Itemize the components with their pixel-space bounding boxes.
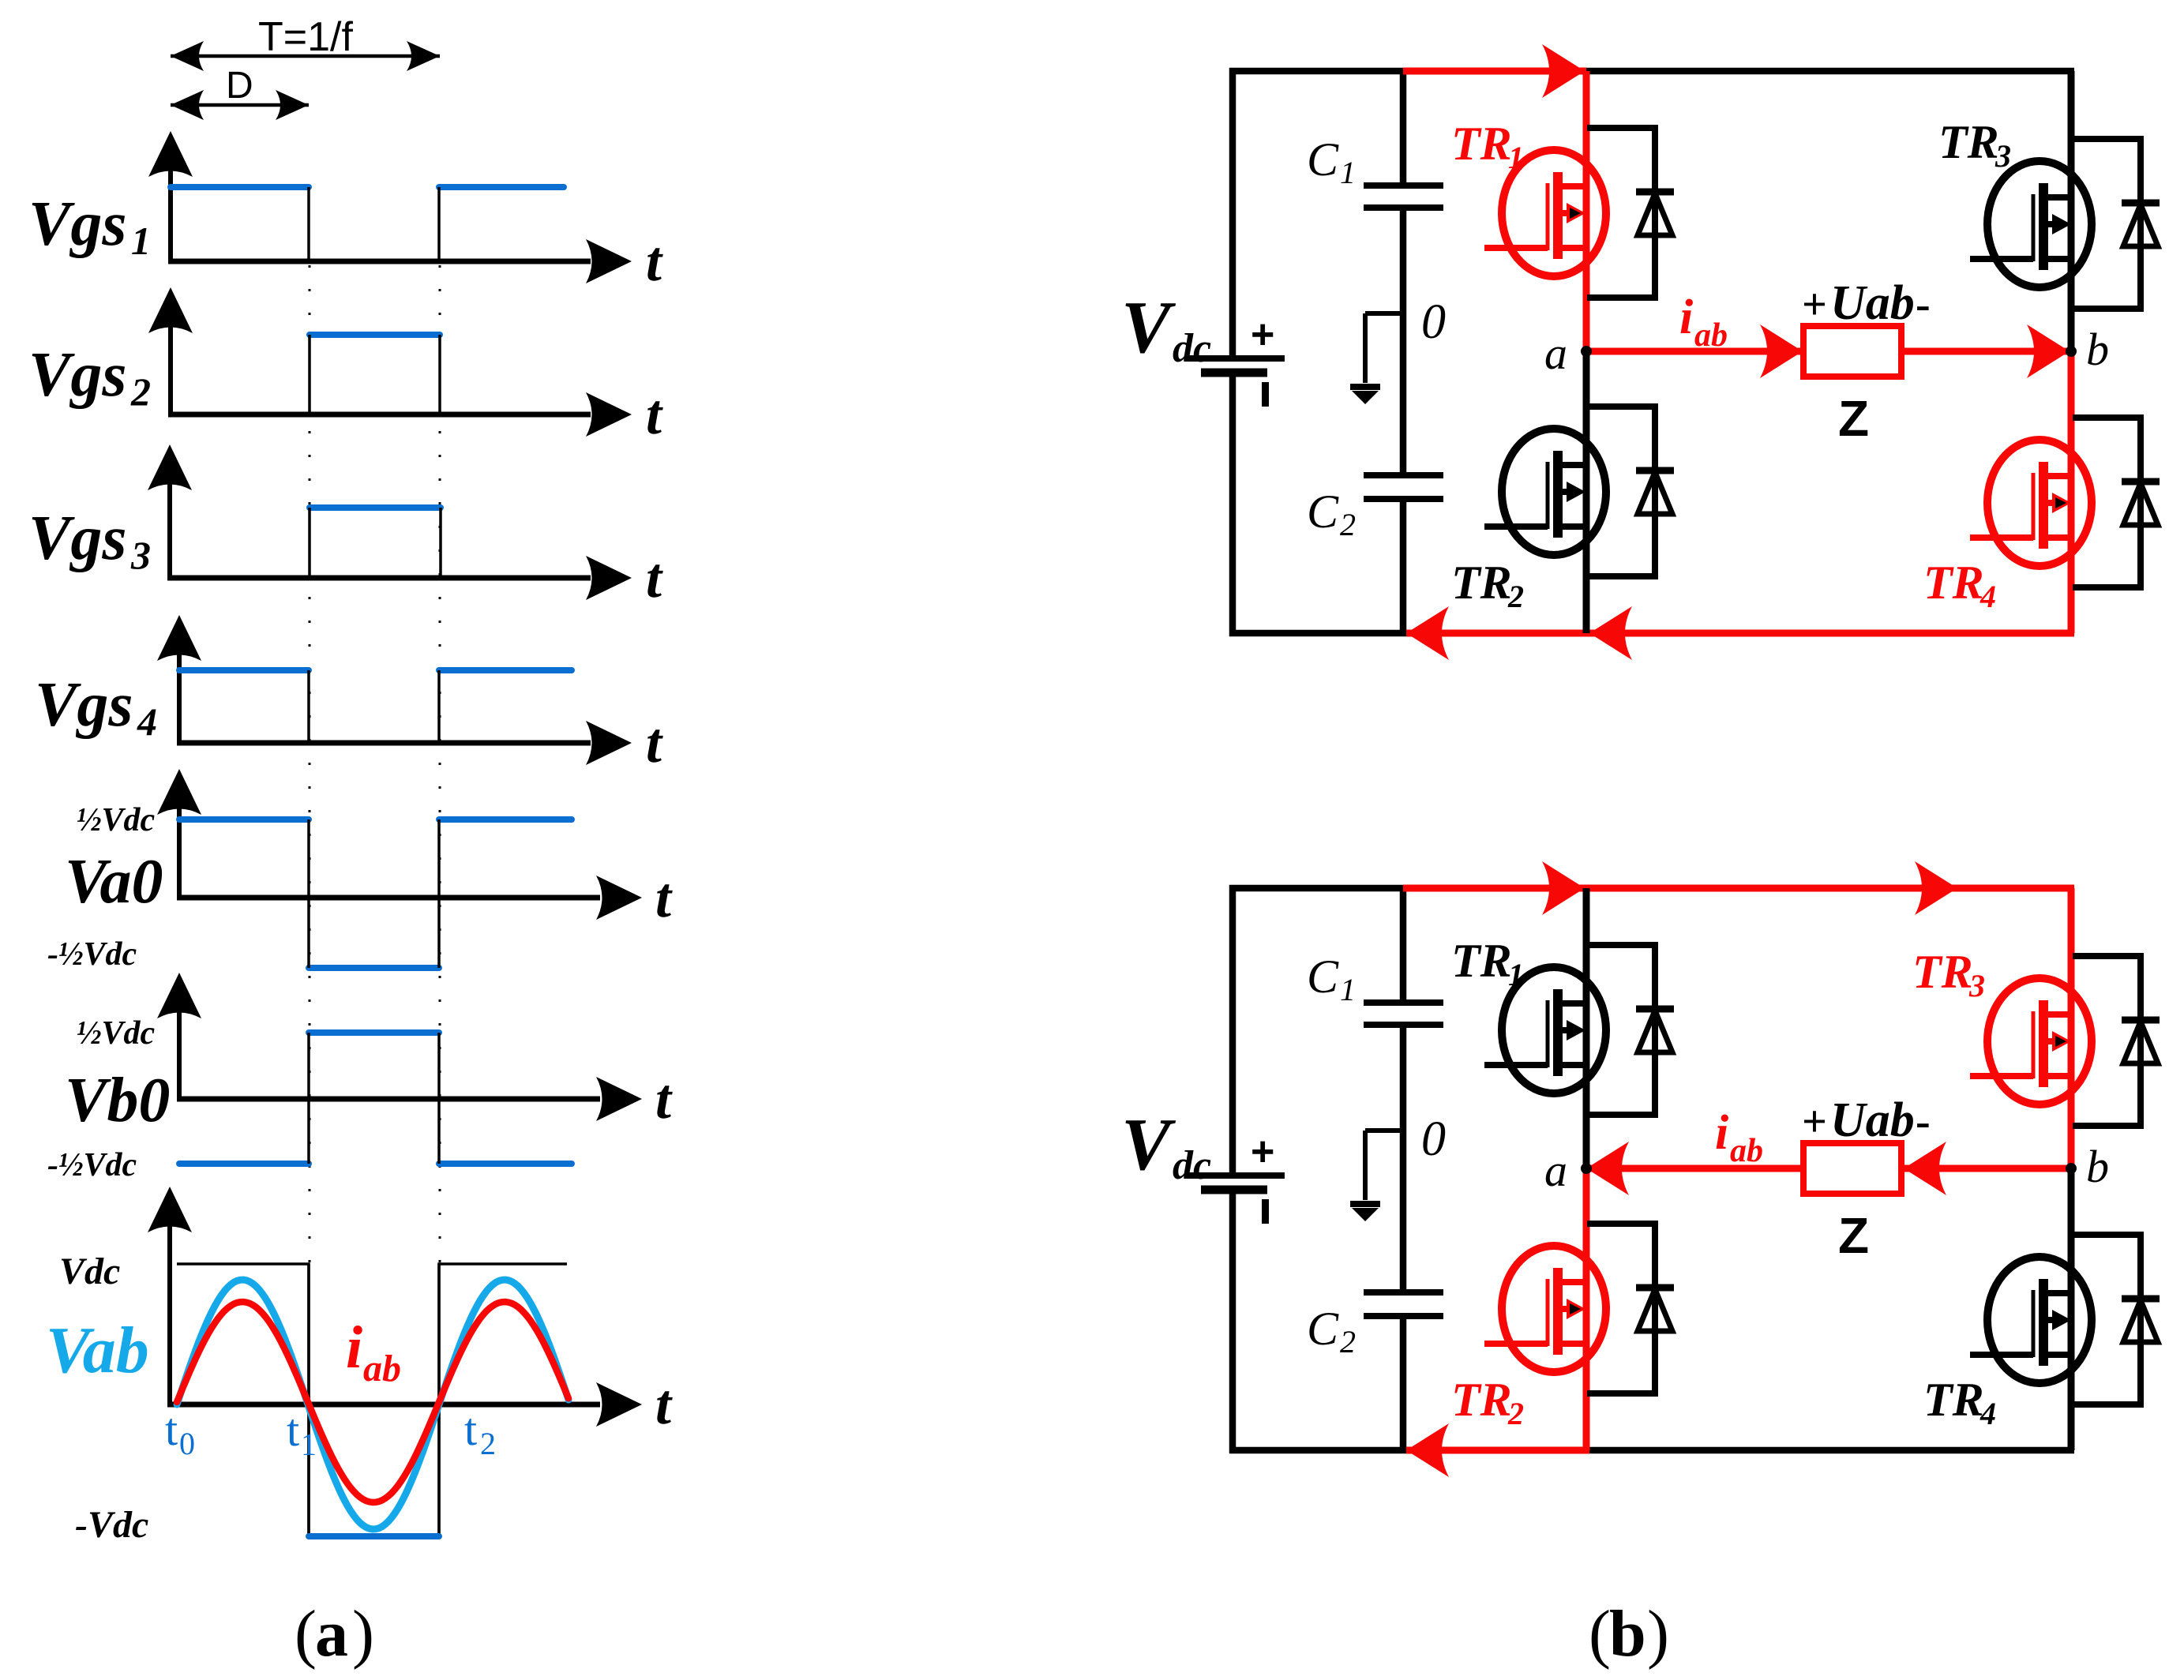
diode of TR4: [2073, 418, 2160, 587]
svg-text:2: 2: [480, 1426, 496, 1461]
svg-text:T=1/f: T=1/f: [258, 14, 353, 60]
svg-text:t: t: [646, 546, 663, 609]
label TR1: [1451, 118, 1524, 175]
svg-text:2: 2: [1340, 1324, 1356, 1359]
svg-text:+: +: [1802, 1097, 1827, 1146]
wire: bottom rail red current path: [1406, 606, 2074, 660]
svg-text:-: -: [1916, 280, 1931, 329]
svg-text:½Vdc: ½Vdc: [77, 802, 156, 838]
label Vgs2: [28, 340, 151, 414]
diode of TR1: [1587, 945, 1674, 1115]
svg-text:TR: TR: [1451, 935, 1512, 987]
svg-text:0: 0: [1421, 1112, 1446, 1166]
wire: load line iab: [1586, 324, 2071, 378]
label C1: [1307, 133, 1356, 190]
svg-text:ab: ab: [1730, 1133, 1763, 1169]
label TR4: [1923, 1374, 1996, 1431]
diode of TR2: [1587, 407, 1674, 576]
transistor TR2: [1484, 1246, 1606, 1372]
label C1: [1307, 951, 1356, 1007]
svg-text:): ): [1647, 1597, 1669, 1671]
capacitor C2: [1364, 475, 1443, 499]
label t2: [464, 1404, 496, 1461]
wire: capacitor branch: [1400, 888, 1407, 1450]
svg-text:+: +: [1251, 312, 1274, 358]
label +Uab-: [1802, 276, 1931, 330]
svg-text:TR: TR: [1923, 1374, 1984, 1426]
svg-text:0: 0: [179, 1426, 195, 1461]
svg-text:1: 1: [131, 219, 151, 263]
ground: [1350, 313, 1403, 404]
svg-text:(: (: [295, 1597, 317, 1671]
label t0: [165, 1404, 195, 1461]
label Vgs3: [28, 504, 151, 577]
wire: leg a lower: [1583, 1168, 1590, 1450]
svg-text:Vgs: Vgs: [28, 340, 127, 410]
svg-text:b: b: [2086, 324, 2109, 375]
svg-text:t: t: [464, 1404, 477, 1455]
label iab (red): [346, 1314, 401, 1389]
svg-text:2: 2: [1507, 1396, 1524, 1431]
node b: [2066, 346, 2077, 357]
svg-text:TR: TR: [1451, 557, 1512, 609]
svg-text:TR: TR: [1912, 946, 1973, 998]
wire: leg b lower: [2068, 1168, 2075, 1450]
label iab (red): [1715, 1106, 1763, 1169]
svg-text:1: 1: [1340, 155, 1356, 190]
wire: top rail (black part): [1229, 885, 1403, 892]
diode of TR2: [1587, 1224, 1674, 1393]
wire: leg a lower: [1583, 351, 1590, 633]
axis Vgs1: [148, 131, 663, 293]
svg-text:Uab: Uab: [1830, 1093, 1915, 1147]
label +Uab-: [1802, 1093, 1931, 1147]
diode of TR3: [2073, 139, 2160, 309]
svg-text:4: 4: [1979, 579, 1996, 614]
node b: [2066, 1163, 2077, 1174]
label Vdc: [1121, 287, 1211, 371]
svg-text:C: C: [1307, 486, 1339, 538]
svg-text:TR: TR: [1451, 118, 1512, 170]
svg-text:TR: TR: [1938, 116, 1999, 168]
wire: bottom rail (black part): [1229, 630, 1406, 637]
waveform Va0: [179, 819, 572, 968]
svg-text:C: C: [1307, 1303, 1339, 1355]
label t1: [287, 1404, 317, 1462]
svg-text:TR: TR: [1923, 557, 1984, 609]
label Vgs4: [35, 670, 157, 744]
wire: leg a upper: [1583, 888, 1590, 1168]
svg-text:4: 4: [1979, 1396, 1996, 1431]
transistor TR1: [1484, 150, 1606, 276]
svg-text:Vab: Vab: [46, 1314, 149, 1387]
svg-text:Vdc: Vdc: [59, 1251, 120, 1292]
svg-text:0: 0: [1421, 295, 1446, 349]
wire: top rail red current path: [1403, 44, 1586, 98]
svg-text:dc: dc: [1173, 1143, 1211, 1188]
svg-text:a: a: [1544, 1145, 1567, 1196]
dimension arrow D: [171, 90, 309, 120]
svg-text:i: i: [346, 1314, 362, 1381]
svg-text:a: a: [1544, 328, 1567, 379]
axis Vb0: [157, 973, 673, 1131]
label TR2: [1451, 557, 1524, 614]
svg-text:): ): [352, 1597, 374, 1671]
waveform Vgs1: [171, 187, 564, 261]
wire: leg a upper: [1583, 71, 1590, 351]
capacitor C2: [1364, 1292, 1443, 1316]
transistor TR3: [1970, 161, 2092, 287]
dimension arrow T=1/f: [171, 41, 440, 71]
label TR1: [1451, 935, 1524, 992]
svg-text:C: C: [1307, 133, 1339, 186]
waveform Vgs3: [310, 508, 441, 578]
ground: [1350, 1131, 1403, 1221]
svg-text:dc: dc: [1173, 326, 1211, 371]
svg-text:1: 1: [1508, 957, 1524, 992]
svg-text:3: 3: [1968, 968, 1985, 1003]
label iab (red): [1679, 291, 1728, 354]
label TR3: [1938, 116, 2011, 174]
battery Vdc: [1186, 312, 1285, 407]
svg-text:3: 3: [130, 533, 151, 577]
battery Vdc: [1186, 1129, 1285, 1224]
capacitor C1: [1364, 186, 1443, 208]
wire: load line iab: [1586, 1142, 2071, 1195]
svg-text:t: t: [655, 866, 673, 929]
svg-text:Vgs: Vgs: [35, 670, 133, 740]
diode of TR3: [2073, 956, 2160, 1126]
svg-text:4: 4: [137, 699, 157, 744]
caption (a): [295, 1597, 374, 1671]
svg-text:t: t: [165, 1404, 178, 1455]
svg-text:V: V: [1121, 287, 1176, 369]
label TR3: [1912, 946, 1985, 1003]
svg-text:t: t: [646, 383, 663, 446]
svg-text:C: C: [1307, 951, 1339, 1003]
svg-text:i: i: [1715, 1106, 1728, 1160]
wire: DC bus left vertical: [1229, 68, 1236, 636]
svg-text:2: 2: [1340, 507, 1356, 542]
label TR4: [1923, 557, 1996, 614]
axis Vgs2: [148, 287, 663, 446]
blue -Vdc segment: [309, 1533, 439, 1539]
svg-text:Z: Z: [1838, 1207, 1869, 1264]
svg-text:ab: ab: [1694, 317, 1728, 354]
diode of TR4: [2073, 1235, 2160, 1404]
axis Vab: [148, 1187, 673, 1436]
label Vgs1: [28, 189, 151, 263]
axis Vgs4: [157, 615, 663, 774]
capacitor C1: [1364, 1003, 1443, 1025]
svg-text:V: V: [1121, 1104, 1176, 1186]
wire: leg b lower: [2068, 351, 2075, 633]
transistor TR4: [1970, 1257, 2092, 1383]
svg-text:t: t: [655, 1067, 673, 1131]
svg-text:TR: TR: [1451, 1374, 1512, 1426]
svg-text:1: 1: [1508, 140, 1524, 175]
svg-text:ab: ab: [363, 1348, 401, 1389]
svg-text:Vb0: Vb0: [65, 1066, 170, 1135]
svg-text:t: t: [287, 1404, 299, 1456]
svg-text:Z: Z: [1838, 390, 1869, 447]
Vab sine curve (cyan): [177, 1280, 569, 1529]
waveform Vgs4: [179, 670, 572, 743]
transistor TR2: [1484, 429, 1606, 555]
wire: leg b upper: [2068, 71, 2075, 351]
label TR2: [1451, 1374, 1524, 1431]
load Z box: [1803, 1143, 1901, 1194]
label C2: [1307, 1303, 1356, 1359]
wire: capacitor branch: [1400, 71, 1407, 633]
transistor TR4: [1970, 440, 2092, 566]
svg-text:D: D: [226, 65, 253, 107]
svg-text:Va0: Va0: [65, 847, 163, 917]
wire: leg b upper: [2068, 888, 2075, 1168]
axis Va0: [157, 769, 673, 929]
label C2: [1307, 486, 1356, 542]
transistor TR3: [1970, 978, 2092, 1104]
svg-text:i: i: [1679, 291, 1693, 344]
svg-text:t: t: [655, 1373, 673, 1436]
diode of TR1: [1587, 128, 1674, 298]
svg-text:a: a: [315, 1597, 348, 1671]
wire: top rail (black part): [1229, 68, 2074, 75]
svg-text:-½Vdc: -½Vdc: [47, 1147, 137, 1183]
svg-text:Vgs: Vgs: [28, 189, 127, 259]
waveform Vgs2: [310, 335, 440, 414]
svg-text:Uab: Uab: [1830, 276, 1915, 330]
wire: bottom rail (black parts): [1229, 1447, 2074, 1454]
svg-text:b: b: [1609, 1597, 1646, 1671]
svg-text:b: b: [2086, 1141, 2109, 1192]
wire: top rail red current path: [1403, 861, 2074, 915]
svg-text:Vgs: Vgs: [28, 504, 127, 573]
svg-text:t: t: [646, 711, 663, 774]
svg-text:2: 2: [130, 369, 151, 414]
svg-text:-½Vdc: -½Vdc: [47, 936, 137, 973]
svg-text:3: 3: [1994, 138, 2011, 174]
caption (b): [1589, 1597, 1669, 1671]
svg-text:+: +: [1802, 280, 1827, 329]
node a: [1581, 346, 1592, 357]
square wave Vab outline: [177, 1264, 567, 1536]
svg-text:t: t: [646, 230, 663, 293]
iab sine curve (red): [177, 1302, 569, 1502]
svg-text:+: +: [1251, 1129, 1274, 1175]
label Vdc: [1121, 1104, 1211, 1188]
svg-text:-: -: [1916, 1097, 1931, 1146]
dotted line t2: [439, 265, 441, 1264]
node a: [1581, 1163, 1592, 1174]
dotted line t1: [309, 265, 311, 1264]
transistor TR1: [1484, 967, 1606, 1093]
svg-text:2: 2: [1507, 579, 1524, 614]
svg-text:(: (: [1589, 1597, 1611, 1671]
wire: DC bus left vertical: [1229, 885, 1236, 1453]
waveform Vb0: [179, 1033, 572, 1164]
load Z box: [1803, 326, 1901, 377]
svg-text:1: 1: [301, 1427, 317, 1462]
svg-text:1: 1: [1340, 972, 1356, 1007]
wire: bottom rail red current path: [1406, 1423, 1589, 1477]
svg-text:½Vdc: ½Vdc: [77, 1015, 156, 1052]
svg-text:-Vdc: -Vdc: [75, 1504, 148, 1546]
axis Vgs3: [148, 444, 663, 609]
